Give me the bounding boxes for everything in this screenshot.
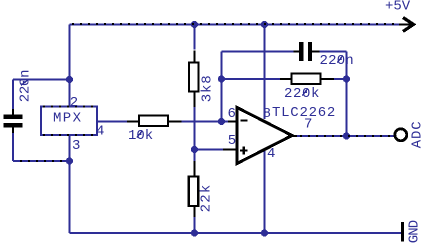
svg-text:3k8: 3k8 [199,75,215,103]
svg-text:4: 4 [267,146,275,162]
svg-text:+5V: +5V [385,0,411,15]
svg-text:10k: 10k [128,128,153,144]
svg-text:ADC: ADC [410,120,426,148]
svg-text:6: 6 [228,106,236,122]
svg-text:3: 3 [72,138,80,154]
svg-text:22k: 22k [199,183,215,212]
svg-text:4: 4 [96,124,104,140]
svg-text:220n: 220n [17,70,33,103]
svg-text:220k: 220k [284,86,320,102]
svg-text:220n: 220n [320,53,354,69]
svg-text:2: 2 [70,95,78,111]
svg-text:5: 5 [228,133,236,149]
svg-text:7: 7 [304,116,312,132]
svg-text:GND: GND [406,220,422,243]
svg-text:8: 8 [263,106,271,122]
svg-text:MPX: MPX [53,111,82,127]
